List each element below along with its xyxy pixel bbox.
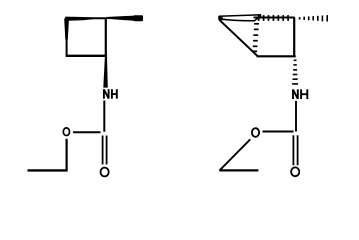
wire: ester O to CH2 diagonal (right)	[220, 139, 250, 170]
atom label O ester (left)	[63, 128, 69, 136]
wire: left ring left edge (thin)	[66, 19, 68, 57]
double bond C=O (right line)	[106, 136, 108, 165]
double bond C=O (left line)	[102, 136, 104, 165]
apex blob	[218, 16, 222, 21]
wire: left ring bottom edge	[66, 55, 107, 57]
hashed wedge: methyl at top-right	[300, 15, 328, 21]
hashed marks on ring top edge	[259, 15, 288, 21]
wire: carbamate C to ester O	[73, 131, 101, 133]
atom label O carbonyl (left)	[101, 168, 109, 177]
wire: left ring top edge (thin)	[66, 17, 106, 19]
wire: left ring right edge	[105, 18, 107, 56]
bold wedge methyl end cap	[134, 15, 144, 21]
atom label NH (right)	[293, 89, 307, 99]
wire: CH2 to CH3 (right)	[219, 169, 258, 171]
wire: ester O to CH2	[65, 139, 67, 171]
wire: right ring right edge	[293, 18, 295, 57]
atom label O carbonyl (right)	[291, 167, 299, 176]
atom label NH (left)	[104, 89, 117, 99]
hollow wedge lower outline	[219, 16, 261, 21]
bold wedge: methyl at top-right	[106, 16, 134, 21]
hashed bond: ring left edge (fused cyclopropane edge)	[253, 24, 260, 52]
double bond C=O (right line, right molecule)	[297, 135, 299, 165]
wire: CH2 to CH3	[28, 169, 68, 171]
wire: right ring bottom edge	[257, 55, 296, 57]
bold wedge along left edge (wide at top)	[64, 18, 69, 39]
wire: cyclopropane apex to ring bottom-left	[219, 20, 257, 56]
wire: right ring top edge	[254, 17, 295, 19]
hollow wedge: cyclopropane apex to ring top-left (upper outline)	[219, 15, 261, 16]
atom label O ester (right)	[252, 128, 259, 137]
bold wedge: ring to NH	[103, 56, 108, 87]
hashed wedge: ring to NH (right)	[292, 60, 298, 84]
bold wedge along top edge (wide at left)	[65, 17, 94, 21]
wire: carbamate C to ester O (right)	[263, 131, 294, 133]
wire: N to carbamate C	[103, 101, 105, 132]
double bond C=O (left line, right molecule)	[292, 135, 294, 165]
wire: N to carbamate C (right)	[295, 101, 297, 132]
